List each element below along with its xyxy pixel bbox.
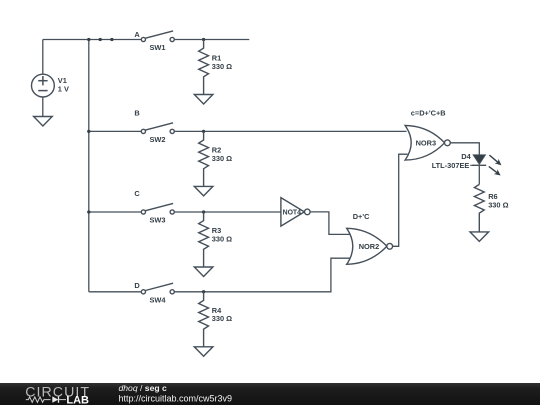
ground (R6) [470, 232, 489, 242]
svg-text:c=D+'C+B: c=D+'C+B [411, 109, 446, 118]
svg-text:A: A [134, 30, 140, 39]
svg-text:1 V: 1 V [58, 85, 69, 94]
svg-text:NOR3: NOR3 [416, 139, 437, 148]
ground (R1) [194, 95, 213, 105]
svg-text:SW3: SW3 [150, 216, 166, 225]
wire: NOR3 out to LED D4 [450, 143, 479, 156]
svg-text:330 Ω: 330 Ω [212, 234, 232, 243]
svg-text:D: D [134, 281, 140, 290]
svg-text:NOT4: NOT4 [283, 209, 302, 216]
svg-text:330 Ω: 330 Ω [488, 200, 508, 209]
LED D4 [432, 152, 502, 176]
ground (R2) [194, 186, 213, 196]
svg-text:D4: D4 [461, 152, 471, 161]
switch SW1 [141, 31, 174, 52]
wire: LED to R6 [478, 165, 480, 185]
wire: NOR2 out to NOR3 lower input [392, 154, 407, 246]
ground (R4) [194, 347, 213, 357]
node junction dot [99, 38, 102, 41]
CircuitLab logo [25, 384, 90, 406]
wire: SW3 to NOT4 input [174, 211, 281, 213]
svg-text:SW1: SW1 [150, 43, 166, 52]
wire: bus to SW4 [89, 291, 142, 293]
svg-text:LAB: LAB [66, 395, 89, 405]
node junction (bus/row C) [87, 210, 90, 213]
node junction (bus/row B) [87, 130, 90, 133]
resistor R3 [199, 212, 232, 267]
voltage source V1 [32, 40, 69, 117]
svg-text:dhoq / seg c: dhoq / seg c [119, 383, 167, 393]
svg-text:B: B [134, 109, 139, 118]
switch SW4 [141, 283, 174, 304]
wire: NOT4 out to NOR2 upper input [310, 212, 352, 235]
switch SW2 [141, 123, 174, 144]
wire: SW2 to NOR3 input B [174, 130, 406, 132]
resistor R2 [199, 131, 232, 186]
wire: SW1 to node A end [174, 39, 249, 41]
resistor R4 [199, 292, 232, 347]
node junction dot [110, 38, 113, 41]
switch SW3 [141, 203, 174, 224]
nor gate NOR3 [405, 126, 450, 161]
svg-text:330 Ω: 330 Ω [212, 62, 232, 71]
svg-text:C: C [134, 189, 140, 198]
node junction (R1) [202, 38, 205, 41]
nor gate NOR2 [347, 228, 393, 264]
footer bar [0, 383, 540, 405]
wire: V1 top to SW1 [43, 39, 142, 41]
wire: bus to SW3 [89, 211, 142, 213]
wire: SW4 to NOR2 lower input [174, 258, 352, 292]
wire: vertical bus [88, 40, 90, 292]
resistor R1 [199, 40, 232, 95]
node junction (R2) [202, 130, 205, 133]
svg-text:NOR2: NOR2 [359, 242, 380, 251]
inverter NOT4 [281, 198, 310, 227]
svg-text:D+'C: D+'C [353, 212, 370, 221]
node junction (bus/top wire) [87, 38, 90, 41]
svg-text:SW4: SW4 [150, 296, 167, 305]
footer text [119, 383, 233, 403]
ground (R3) [194, 267, 213, 277]
resistor R6 [474, 184, 508, 232]
svg-text:330 Ω: 330 Ω [212, 154, 232, 163]
node junction (R4) [202, 290, 205, 293]
svg-text:http://circuitlab.com/cw5r3v9: http://circuitlab.com/cw5r3v9 [119, 394, 233, 404]
svg-text:330 Ω: 330 Ω [212, 314, 232, 323]
node junction (R3) [202, 210, 205, 213]
ground (V1) [34, 117, 53, 127]
wire: bus to SW2 [89, 130, 142, 132]
svg-text:LTL-307EE: LTL-307EE [432, 161, 470, 170]
svg-text:SW2: SW2 [150, 135, 166, 144]
